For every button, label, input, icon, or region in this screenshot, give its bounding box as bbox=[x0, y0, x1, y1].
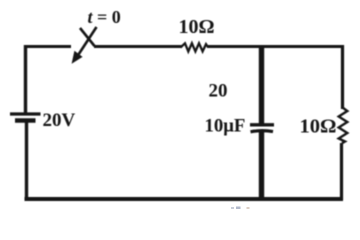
svg-text:10Ω: 10Ω bbox=[300, 116, 337, 138]
wire left vertical (lower) bbox=[25, 121, 28, 200]
wire left vertical (upper) bbox=[24, 45, 27, 113]
cropped caption remnants bbox=[231, 207, 250, 210]
wire bottom bbox=[25, 197, 344, 201]
wire right vertical (lower) bbox=[340, 143, 343, 200]
svg-text:20: 20 bbox=[209, 81, 228, 102]
svg-text:20V: 20V bbox=[43, 110, 76, 131]
wire top-left stub bbox=[24, 45, 71, 48]
battery V1 20V bbox=[10, 114, 41, 121]
wire middle branch (upper, thick) bbox=[259, 45, 264, 124]
resistor R1 10ohm (top) bbox=[181, 43, 209, 51]
wire middle branch (lower, thick) bbox=[259, 132, 264, 201]
wire top-right bbox=[208, 45, 345, 48]
wire top-middle bbox=[94, 45, 182, 48]
resistor R2 10ohm (right, vertical zigzag) bbox=[339, 108, 348, 144]
svg-text:10Ω: 10Ω bbox=[179, 16, 215, 38]
switch S1 (t=0) bbox=[73, 27, 97, 63]
svg-text:t = 0: t = 0 bbox=[88, 7, 121, 27]
capacitor C1 10uF bbox=[250, 125, 274, 132]
wire right vertical (upper) bbox=[341, 45, 344, 109]
svg-text:10μF: 10μF bbox=[205, 116, 246, 137]
